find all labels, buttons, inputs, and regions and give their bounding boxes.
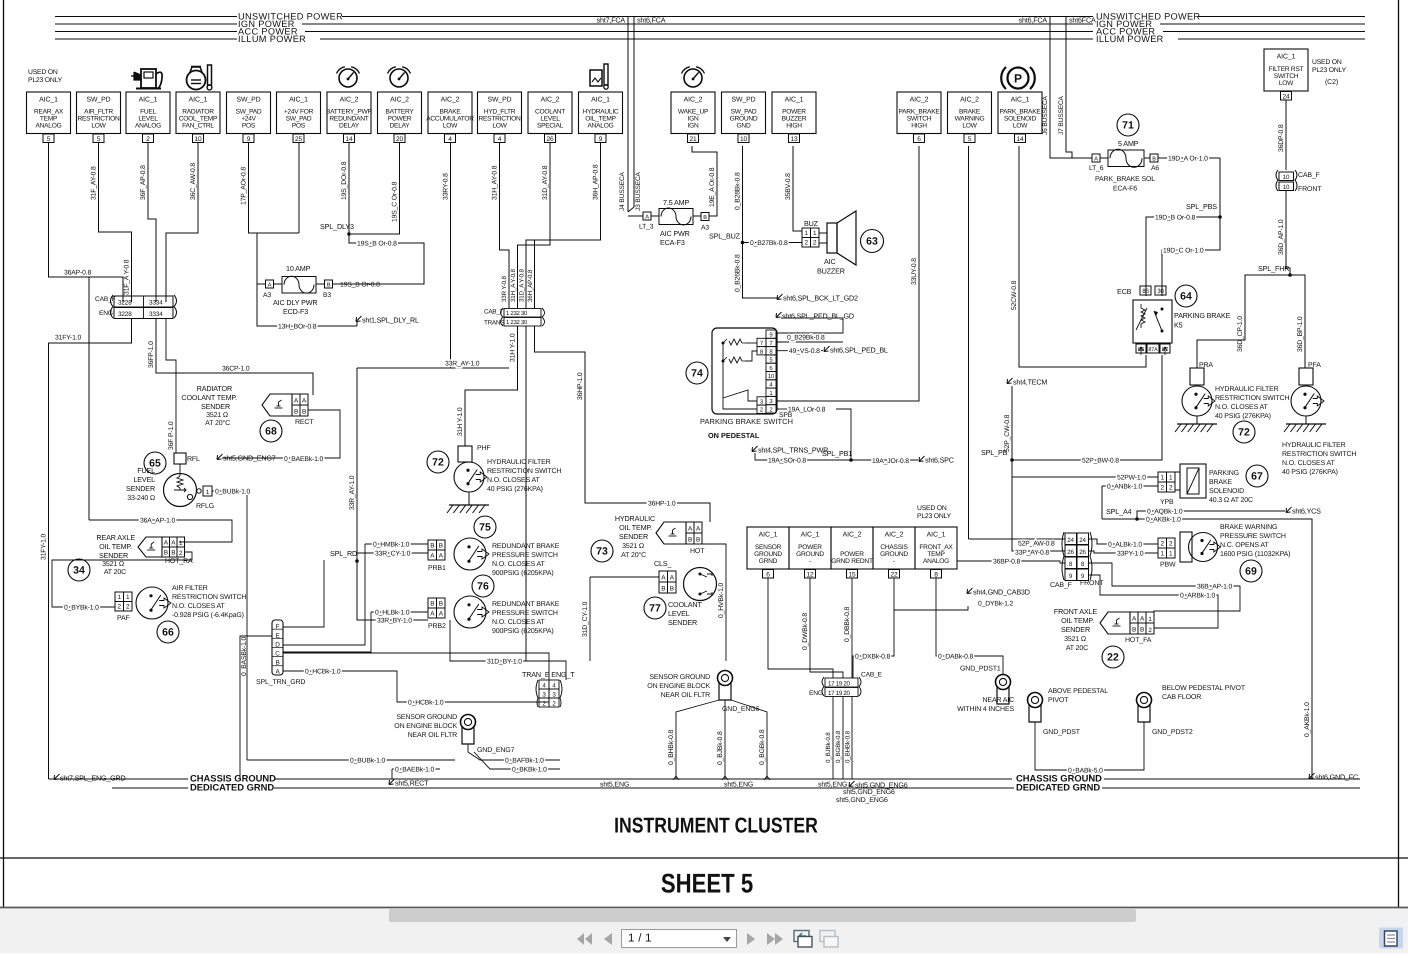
svg-text:IGN: IGN (688, 123, 699, 130)
wire 19E_A Or-0.8 from WAKE_UP to fuse ECA-F3 (692, 146, 717, 216)
wire 0_HCBk-1.0 from strip (283, 671, 549, 702)
svg-text:10: 10 (1283, 184, 1290, 191)
svg-text:SENDER: SENDER (668, 618, 697, 627)
svg-text:1 232 30: 1 232 30 (506, 310, 528, 317)
svg-text:AIC_1: AIC_1 (759, 532, 778, 539)
svg-text:RESTRICTION: RESTRICTION (78, 115, 120, 122)
svg-text:AIC_1: AIC_1 (189, 97, 208, 104)
svg-text:LT_3: LT_3 (639, 224, 654, 231)
svg-text:19S_DOr-0.8: 19S_DOr-0.8 (341, 161, 348, 200)
svg-text:GND_PDST: GND_PDST (1043, 729, 1081, 736)
svg-text:COOLANT: COOLANT (668, 600, 702, 609)
svg-text:SPL_PBS: SPL_PBS (1186, 202, 1217, 211)
svg-text:ANALOG: ANALOG (135, 123, 161, 130)
wire 0_DBBk-0.8 from POWER GRND REDNT pin (851, 578, 853, 678)
svg-text:SW_PD: SW_PD (86, 97, 110, 104)
svg-text:2: 2 (1161, 541, 1165, 548)
svg-text:SPL_BUZ: SPL_BUZ (709, 232, 741, 241)
svg-text:36FP-1.0: 36FP-1.0 (148, 341, 155, 368)
svg-text:6: 6 (917, 136, 921, 143)
wire 52P_BW-0.8 to relay (1012, 355, 1162, 460)
svg-text:36C_AW-0.8: 36C_AW-0.8 (190, 163, 197, 200)
svg-text:LOW: LOW (962, 123, 977, 130)
wire 19A_SOr-0.8 (755, 453, 851, 460)
ground ring terminal GND_ENG6 (718, 671, 733, 686)
wire 31H Y-1.0 from CAB_T to PHF (465, 326, 518, 446)
node callout 72 (1233, 421, 1255, 443)
wire 52P_AW-0.8 (969, 538, 1066, 540)
node callout 74 (686, 362, 708, 384)
svg-text:sht1,SPL_DLY_RL: sht1,SPL_DLY_RL (362, 316, 419, 325)
svg-text:POS: POS (292, 123, 306, 130)
wire 0_HMBk-1.0 to PRB1 (365, 543, 428, 545)
svg-text:PRESSURE SWITCH: PRESSURE SWITCH (1220, 533, 1286, 540)
connector box AIC_1 HYDRAULIC OIL_TEMP ANALOG (579, 92, 623, 134)
svg-text:sht6,SPL_BCK_LT_GD2: sht6,SPL_BCK_LT_GD2 (783, 294, 858, 303)
svg-text:1 / 1: 1 / 1 (628, 933, 652, 945)
svg-text:FRONT_AX: FRONT_AX (919, 544, 953, 551)
svg-text:LOW: LOW (91, 123, 106, 130)
svg-text:52PW-1.0: 52PW-1.0 (1117, 475, 1146, 482)
connector box AIC_2 COOLANT LEVEL SPECIAL (528, 92, 572, 134)
node callout 73 (591, 540, 613, 562)
svg-text:3334: 3334 (149, 311, 163, 318)
sheet ref sht7,SPL_ENG_GRD (54, 774, 60, 780)
svg-text:ANALOG: ANALOG (36, 123, 62, 130)
icon gauge battery pwr redundant (339, 69, 357, 87)
toolbar button previous page (604, 933, 612, 945)
svg-text:PBW: PBW (1160, 562, 1176, 569)
svg-text:2: 2 (805, 240, 809, 247)
svg-text:12: 12 (807, 571, 814, 578)
svg-text:OIL TEMP.: OIL TEMP. (99, 542, 132, 551)
connector box AIC_2 BATTERY POWER DELAY (378, 92, 422, 134)
svg-text:J3 BUSSECA: J3 BUSSECA (635, 171, 642, 211)
svg-text:77: 77 (649, 603, 661, 615)
svg-text:24: 24 (1079, 537, 1086, 544)
svg-text:1: 1 (813, 230, 817, 237)
wire 52CW-0.8 from PARK_BRAKE SOLENOID to relay (1019, 146, 1146, 367)
svg-text:CHASSIS: CHASSIS (880, 544, 908, 551)
wire 19A_LOr-0.8 from pin2 (776, 408, 788, 410)
svg-text:0_DBBk-0.8: 0_DBBk-0.8 (844, 606, 851, 642)
wire 19S_B Or-0.8 to fuse ECD-F3 (349, 234, 424, 284)
svg-text:AIC_2: AIC_2 (684, 97, 703, 104)
svg-text:NEAR OIL FLTR: NEAR OIL FLTR (408, 732, 457, 739)
svg-text:36B_AP-1.0: 36B_AP-1.0 (1197, 584, 1233, 591)
toolbar button next page (747, 933, 755, 945)
svg-text:RADIATOR: RADIATOR (197, 384, 232, 393)
svg-text:3521 Ω: 3521 Ω (622, 543, 644, 550)
connector box AIC_1 POWER BUZZER HIGH (772, 92, 816, 134)
svg-text:BRAKE: BRAKE (959, 108, 981, 115)
svg-text:LOW: LOW (492, 123, 507, 130)
svg-text:LEVEL: LEVEL (133, 475, 155, 484)
svg-text:GND_PDST2: GND_PDST2 (1152, 729, 1193, 736)
svg-text:AIC_2: AIC_2 (843, 532, 862, 539)
svg-text:63: 63 (866, 236, 878, 248)
svg-text:LEVEL: LEVEL (540, 115, 560, 122)
svg-text:USED ON: USED ON (1312, 59, 1342, 66)
svg-text:4: 4 (448, 136, 452, 143)
svg-text:36H_AP-0.8: 36H_AP-0.8 (527, 269, 534, 302)
svg-text:CLS_: CLS_ (654, 559, 673, 568)
svg-text:FRONT: FRONT (1080, 580, 1104, 587)
svg-text:sht5,ENG: sht5,ENG (600, 781, 629, 789)
svg-text:N.O. CLOSES AT: N.O. CLOSES AT (487, 477, 540, 484)
svg-text:RFL: RFL (187, 456, 200, 463)
svg-text:ECB: ECB (1117, 287, 1132, 296)
connector CAB_F/ENG 3228 3334 (111, 295, 177, 318)
wire 0_B27Bk-0.8 to buzzer (743, 242, 803, 244)
wire 31H_AY-0.8 from HYD_FLTR (500, 142, 510, 308)
svg-text:2: 2 (126, 604, 130, 611)
wire 0_BU to GND_ENG7 (247, 759, 455, 761)
svg-text:0_AQBk-1.0: 0_AQBk-1.0 (1147, 509, 1183, 516)
node callout 72 (427, 451, 449, 473)
svg-text:40.3 Ω AT 20C: 40.3 Ω AT 20C (1209, 497, 1253, 504)
svg-text:SPL_RD: SPL_RD (330, 549, 357, 558)
svg-text:FUEL: FUEL (137, 466, 155, 475)
wire 36F_AP-0.8 from FUEL LEVEL (148, 142, 156, 302)
wire 31D_CY-1.0 down to CLS pin (590, 576, 659, 578)
svg-text:sht7,FCA: sht7,FCA (597, 16, 626, 25)
svg-text:PARK_BRAKE: PARK_BRAKE (1000, 108, 1042, 115)
wire 0_ANBk down from SPL_A4 (1102, 518, 1137, 520)
svg-text:2: 2 (118, 604, 122, 611)
icon fuel pump (141, 69, 156, 88)
svg-text:B: B (1132, 627, 1136, 634)
wire 0_DY to sht4,GND_CAB3D (894, 606, 968, 610)
svg-text:31D_CY-1.0: 31D_CY-1.0 (582, 601, 589, 637)
connector box SW_PD SW_PAD GROUND GND (722, 92, 766, 134)
svg-text:-: - (809, 558, 811, 565)
connector box AIC_1 FRONT_AX TEMP ANALOG (915, 527, 957, 569)
connector box AIC_2 BATTERY_PWR REDUNDANT DELAY (327, 92, 371, 134)
svg-text:0_BUBk-1.0: 0_BUBk-1.0 (350, 758, 386, 765)
wire from +24V FOR SW_PAD (298, 142, 300, 233)
drawing frame border (3, 0, 5, 908)
svg-text:1: 1 (118, 594, 122, 601)
connector box AIC_1 PARK_BRAKE SOLENOID LOW (998, 92, 1042, 134)
connector box AIC_1 POWER GROUND - (789, 527, 831, 569)
wire 19A_JOr-0.8 to sht6,SPC (851, 459, 918, 461)
svg-text:B: B (439, 601, 443, 608)
wire 33R down to node SPL_RD (356, 368, 358, 620)
svg-text:HYD_FLTR: HYD_FLTR (484, 108, 516, 115)
svg-text:BRAKE: BRAKE (439, 108, 461, 115)
wire 0_DABk-0.8 to GND_PDST1 (936, 578, 1003, 674)
switch PAF air filter restriction (115, 592, 124, 602)
svg-text:36HP-1.0: 36HP-1.0 (577, 372, 584, 400)
wire 0_BKBk-1.0 (474, 752, 560, 769)
svg-text:ON ENGINE BLOCK: ON ENGINE BLOCK (647, 683, 710, 690)
svg-text:AIC_2: AIC_2 (960, 97, 979, 104)
svg-text:TEMP: TEMP (40, 115, 58, 122)
svg-text:14: 14 (346, 136, 353, 143)
svg-text:POWER: POWER (782, 108, 806, 115)
power rail IGN POWER (55, 23, 237, 25)
wire 0_ALBk-1.0 to PBW (1089, 539, 1158, 544)
svg-text:sht6,SPL_PED_BL: sht6,SPL_PED_BL (830, 346, 888, 355)
svg-text:SENDER: SENDER (99, 551, 128, 560)
svg-text:B3: B3 (323, 292, 331, 299)
connector box AIC_2 POWER GRND REDNT (831, 527, 873, 569)
svg-text:SW_PD: SW_PD (731, 97, 755, 104)
svg-text:0_ARBk-1.0: 0_ARBk-1.0 (1180, 593, 1216, 600)
svg-text:33RY-0.8: 33RY-0.8 (443, 173, 450, 200)
svg-text:0_DWBk-0.8: 0_DWBk-0.8 (802, 613, 809, 650)
svg-text:N.C. OPENS AT: N.C. OPENS AT (1220, 542, 1269, 549)
svg-text:86: 86 (1142, 288, 1149, 295)
svg-text:GND: GND (737, 123, 751, 130)
wire from SENSOR GROUND GRND pin (768, 578, 833, 678)
svg-text:REDUNDANT: REDUNDANT (329, 115, 368, 122)
svg-text:22: 22 (1107, 652, 1119, 664)
svg-text:BATTERY_PWR: BATTERY_PWR (326, 108, 373, 115)
connector box SW_PD SW_PAD +24V POS (227, 92, 271, 134)
svg-text:AIC_1: AIC_1 (39, 97, 58, 104)
svg-text:ECD-F3: ECD-F3 (283, 307, 308, 316)
wire 31D to CLS (525, 326, 527, 661)
svg-text:0_BJBk-0.8: 0_BJBk-0.8 (825, 732, 832, 763)
svg-text:10 AMP: 10 AMP (286, 264, 311, 273)
node callout 67 (1246, 465, 1268, 487)
svg-text:+24V FOR: +24V FOR (284, 108, 314, 115)
svg-text:DEDICATED GRND: DEDICATED GRND (190, 782, 274, 793)
svg-text:0_BAEBk-1.0: 0_BAEBk-1.0 (284, 456, 324, 463)
svg-text:LEVEL: LEVEL (138, 115, 158, 122)
svg-text:64: 64 (1180, 291, 1192, 303)
svg-text:0_BKBk-1.0: 0_BKBk-1.0 (512, 767, 547, 774)
svg-text:4: 4 (498, 136, 502, 143)
svg-text:B: B (439, 543, 443, 550)
svg-text:AIC_1: AIC_1 (801, 532, 820, 539)
svg-text:66: 66 (162, 627, 174, 639)
svg-text:ENG: ENG (99, 310, 113, 317)
wire pin9 to sht6,SPL_PED_BL_GD (776, 318, 843, 333)
svg-text:PHF: PHF (477, 445, 491, 452)
connector box AIC_1 FILTER RST SWITCH LOW (1264, 49, 1308, 91)
node callout 77 (644, 597, 666, 619)
svg-text:31D_AY-0.8: 31D_AY-0.8 (542, 165, 549, 200)
svg-text:SPL_TRN_GRD: SPL_TRN_GRD (256, 679, 305, 686)
svg-text:HYDRAULIC FILTER: HYDRAULIC FILTER (1215, 386, 1279, 393)
svg-text:0_DYBk-1.2: 0_DYBk-1.2 (978, 601, 1014, 608)
svg-text:SENDER: SENDER (126, 484, 155, 493)
svg-text:B: B (1152, 157, 1156, 163)
svg-text:0_BUBk-1.0: 0_BUBk-1.0 (215, 489, 251, 496)
viewer sidebar toggle icon (1379, 928, 1403, 949)
svg-text:HIGH: HIGH (911, 123, 927, 130)
chassis ground dedicated grnd bus left (49, 778, 189, 780)
svg-text:AIC_2: AIC_2 (541, 97, 560, 104)
svg-text:B: B (696, 537, 700, 544)
svg-text:10: 10 (195, 136, 202, 143)
svg-text:3521 Ω: 3521 Ω (1064, 636, 1086, 643)
svg-text:22: 22 (891, 571, 898, 578)
svg-text:HYDRAULIC FILTER: HYDRAULIC FILTER (487, 459, 551, 466)
svg-text:ILLUM POWER: ILLUM POWER (1096, 34, 1164, 44)
svg-text:PRESSURE SWITCH: PRESSURE SWITCH (492, 610, 558, 617)
node callout 22 (1102, 646, 1124, 668)
svg-text:sht6,SPL_PED_BL_GD: sht6,SPL_PED_BL_GD (782, 312, 854, 321)
svg-text:RECT: RECT (295, 419, 314, 426)
icon hydraulic oil temp (590, 70, 602, 86)
svg-text:B: B (171, 550, 175, 557)
svg-text:FILTER RST: FILTER RST (1269, 66, 1304, 73)
svg-text:49_VS-0.8: 49_VS-0.8 (789, 348, 820, 355)
svg-text:POS: POS (242, 123, 256, 130)
toolbar icon page fit (794, 931, 809, 942)
svg-text:31F_AY-0.8: 31F_AY-0.8 (91, 166, 98, 200)
svg-text:B: B (670, 586, 674, 593)
svg-text:J4 BUSSECA: J4 BUSSECA (619, 171, 626, 211)
svg-text:sht6,GND_FC: sht6,GND_FC (1315, 773, 1358, 782)
svg-text:NEAR OIL FLTR: NEAR OIL FLTR (661, 692, 710, 699)
svg-text:B: B (164, 550, 168, 557)
svg-text:sht7,SPL_ENG_GRD: sht7,SPL_ENG_GRD (60, 774, 126, 783)
svg-text:72: 72 (432, 457, 444, 469)
svg-text:52P_BW-0.8: 52P_BW-0.8 (1082, 458, 1119, 465)
svg-text:BATTERY: BATTERY (385, 108, 414, 115)
svg-text:0_BAFBk-1.0: 0_BAFBk-1.0 (505, 758, 544, 765)
svg-text:GROUND: GROUND (730, 115, 758, 122)
svg-text:+24V: +24V (241, 115, 256, 122)
svg-text:CAB FLOOR: CAB FLOOR (1162, 694, 1201, 701)
wire 31D_BY-1.0 to TRAN_E (450, 620, 566, 680)
wire 36HP-1.0 to hydraulic oil temp sender (535, 326, 711, 522)
svg-text:2: 2 (813, 240, 817, 247)
svg-text:36BP-0.8: 36BP-0.8 (993, 559, 1021, 566)
svg-text:67: 67 (1251, 471, 1263, 483)
svg-text:74: 74 (691, 368, 703, 380)
ground ring terminal GND_PDST1 (996, 675, 1011, 690)
svg-text:GROUND: GROUND (796, 551, 824, 558)
power rail ILLUM POWER (55, 38, 237, 40)
svg-text:14: 14 (1017, 136, 1024, 143)
svg-text:B: B (661, 586, 665, 593)
svg-text:36A_AP-1.0: 36A_AP-1.0 (140, 518, 176, 525)
svg-text:19S_B Or-0.8: 19S_B Or-0.8 (340, 282, 380, 289)
svg-text:sht4,TECM: sht4,TECM (1013, 378, 1047, 387)
svg-text:33P_AY-0.8: 33P_AY-0.8 (1015, 550, 1049, 557)
svg-text:PIVOT: PIVOT (1048, 697, 1069, 704)
svg-text:USED ON: USED ON (917, 505, 947, 512)
svg-text:34: 34 (73, 565, 85, 577)
svg-text:0_DXBk-0.8: 0_DXBk-0.8 (855, 654, 891, 661)
svg-text:0_ANBk-1.0: 0_ANBk-1.0 (1107, 484, 1143, 491)
svg-text:PRB1: PRB1 (428, 565, 446, 572)
wire 0_AKBk-1.0 long to chassis ground (1137, 519, 1312, 779)
svg-text:GND_ENG7: GND_ENG7 (477, 747, 515, 754)
svg-text:19A_SOr-0.8: 19A_SOr-0.8 (768, 458, 806, 465)
svg-text:33UY-0.8: 33UY-0.8 (911, 258, 918, 285)
svg-text:PL23 ONLY: PL23 ONLY (28, 77, 63, 84)
svg-text:13: 13 (791, 136, 798, 143)
wire 0_DWBk-0.8 from POWER GROUND pin (810, 578, 843, 678)
svg-text:3228: 3228 (118, 311, 132, 318)
svg-text:GROUND: GROUND (880, 551, 908, 558)
icon radiator coolant temp (187, 71, 206, 90)
svg-text:GROUND: GROUND (754, 551, 782, 558)
svg-text:LT_6: LT_6 (1089, 165, 1104, 172)
svg-text:0_BJBk-0.8: 0_BJBk-0.8 (717, 731, 724, 765)
svg-text:TRANS: TRANS (484, 320, 504, 327)
node callout 63 (861, 230, 884, 253)
connector box AIC_2 CHASSIS GROUND - (873, 527, 915, 569)
svg-text:AIC DLY PWR: AIC DLY PWR (273, 298, 317, 307)
wire 52CV from BRAKE WARNING (968, 146, 970, 539)
svg-text:ON PEDESTAL: ON PEDESTAL (708, 431, 760, 440)
wire 36F P-1.0 to fuel sender (166, 318, 176, 453)
svg-text:1 232 30: 1 232 30 (506, 319, 528, 326)
wire 0_ANBk-1.0 (1102, 485, 1158, 487)
svg-text:1: 1 (1169, 475, 1173, 482)
sheet ref sht6,GND_FC (1309, 773, 1315, 779)
svg-text:WAKE_UP: WAKE_UP (678, 108, 709, 115)
svg-text:SW_PAD: SW_PAD (286, 115, 312, 122)
connector box AIC_1 REAR_AX TEMP ANALOG (27, 92, 71, 134)
ground for PRA (1177, 423, 1217, 425)
wire 19D_B Or-0.8 to relay pin 86 (1146, 217, 1220, 296)
svg-text:WITHIN 4 INCHES: WITHIN 4 INCHES (957, 706, 1014, 713)
connector box AIC_1 +24V FOR SW_PAD POS (277, 92, 321, 134)
svg-text:A3: A3 (701, 225, 709, 232)
svg-text:HOT_RA: HOT_RA (165, 558, 193, 565)
svg-text:76: 76 (477, 581, 489, 593)
svg-text:AIR_FLTR: AIR_FLTR (84, 108, 113, 115)
svg-text:PL23 ONLY: PL23 ONLY (1312, 67, 1347, 74)
wire 31FY-1.0 long left ground wire (49, 318, 132, 779)
wire 33R_AY-1.0 horizontal (357, 367, 509, 369)
wires from GND_ENG6 to sht5,ENG (676, 700, 719, 779)
svg-text:0_HMBk-1.0: 0_HMBk-1.0 (373, 542, 410, 549)
svg-text:0_BAEBk-1.0: 0_BAEBk-1.0 (395, 767, 435, 774)
svg-text:ENG: ENG (809, 690, 823, 697)
svg-text:ANALOG: ANALOG (588, 123, 614, 130)
svg-text:A3: A3 (263, 292, 271, 299)
svg-text:BRAKE WARNING: BRAKE WARNING (1220, 524, 1277, 531)
svg-text:A6: A6 (1151, 165, 1159, 172)
svg-text:SW_PD: SW_PD (487, 97, 511, 104)
svg-text:AIC_2: AIC_2 (340, 97, 359, 104)
svg-text:AIC_1: AIC_1 (785, 97, 804, 104)
svg-text:40 PSIG (276KPA): 40 PSIG (276KPA) (1282, 468, 1338, 476)
svg-text:GND_PDST1: GND_PDST1 (960, 666, 1001, 673)
connector box AIC_1 SENSOR GROUND GRND (747, 527, 789, 569)
svg-text:CAB_F: CAB_F (1298, 172, 1320, 179)
svg-text:68: 68 (265, 426, 277, 438)
connector box SW_PD HYD_FLTR RESTRICTION LOW (478, 92, 522, 134)
svg-text:17 19 20: 17 19 20 (828, 690, 851, 697)
svg-text:POWER: POWER (798, 544, 822, 551)
svg-text:10: 10 (768, 373, 775, 380)
svg-text:PRB2: PRB2 (428, 623, 446, 630)
svg-text:RESTRICTION SWITCH: RESTRICTION SWITCH (487, 468, 561, 475)
svg-text:87A: 87A (1148, 347, 1158, 353)
wire 33PY-1.0 to PBW (1089, 551, 1158, 553)
svg-text:PARKING: PARKING (1209, 470, 1239, 477)
svg-text:TEMP: TEMP (927, 551, 945, 558)
svg-text:30: 30 (1157, 288, 1164, 295)
svg-text:K5: K5 (1174, 321, 1183, 330)
svg-text:25: 25 (295, 136, 302, 143)
svg-text:900PSIG (6205KPA): 900PSIG (6205KPA) (492, 569, 554, 577)
svg-text:sht4,SPL_TRNS_PWR: sht4,SPL_TRNS_PWR (758, 446, 828, 455)
svg-text:ECA-F6: ECA-F6 (1113, 186, 1137, 193)
viewer horizontal scrollbar thumb (389, 909, 1136, 922)
